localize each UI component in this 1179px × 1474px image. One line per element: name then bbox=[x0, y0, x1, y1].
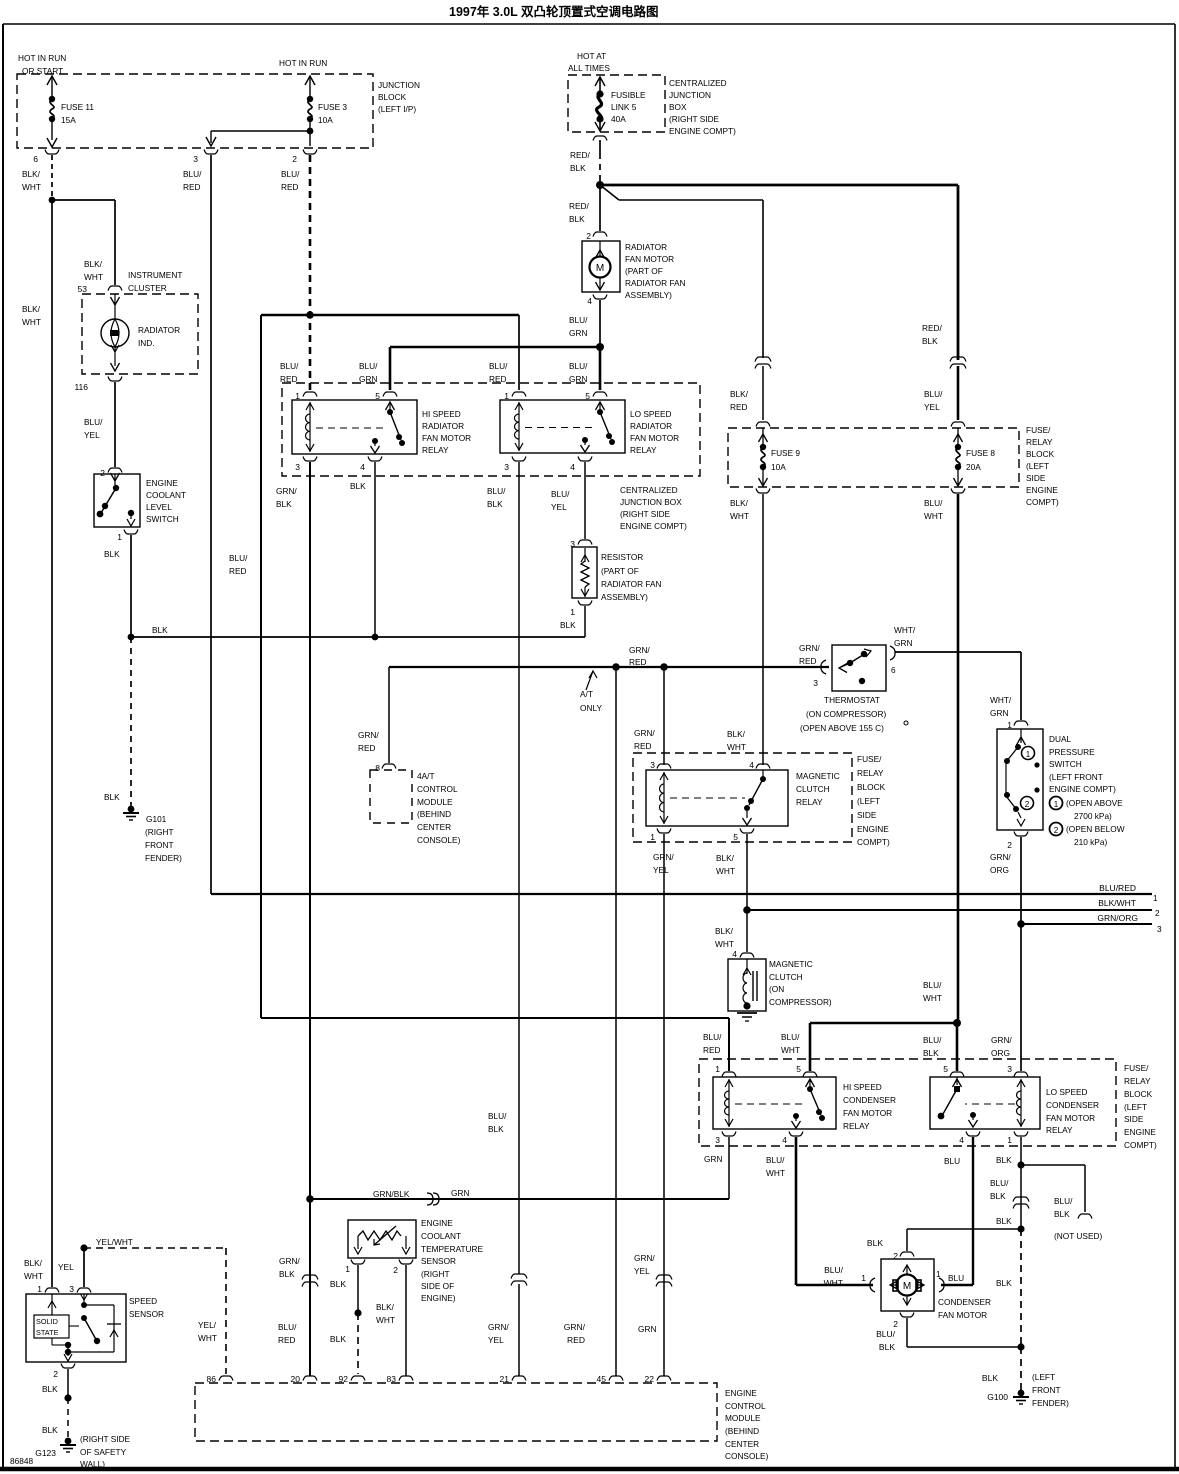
wire BLK/WHT mag relay pin5 to magnetic clutch bbox=[715, 834, 747, 952]
wire BLK temp sensor pin1 to ECM pin 92 bbox=[330, 1265, 362, 1374]
svg-text:JUNCTION BOX: JUNCTION BOX bbox=[620, 497, 682, 507]
wire RED/BLK to radiator fan motor bbox=[599, 185, 601, 231]
pin 3 connector thermostat bbox=[813, 660, 826, 688]
svg-text:HOT AT: HOT AT bbox=[577, 51, 606, 61]
svg-text:RED: RED bbox=[489, 374, 507, 384]
svg-text:FUSE/: FUSE/ bbox=[1124, 1063, 1149, 1073]
pin 2 connector temp sensor bbox=[393, 1260, 413, 1276]
pin 1 connector resistor bbox=[560, 601, 592, 631]
svg-text:ENGINE): ENGINE) bbox=[421, 1293, 456, 1303]
pin 2 connector of junction block bbox=[292, 150, 317, 165]
svg-text:COMPT): COMPT) bbox=[1026, 497, 1059, 507]
inline connector on wire to pin 21 bbox=[511, 1274, 527, 1286]
svg-text:CENTER: CENTER bbox=[417, 822, 451, 832]
svg-text:BLK: BLK bbox=[569, 214, 585, 224]
svg-text:ENGINE: ENGINE bbox=[725, 1388, 757, 1398]
hi speed condenser fan motor relay bbox=[713, 1064, 896, 1145]
svg-text:(ON COMPRESSOR): (ON COMPRESSOR) bbox=[806, 709, 886, 719]
svg-text:2700 kPa): 2700 kPa) bbox=[1074, 811, 1112, 821]
svg-text:BLK/: BLK/ bbox=[24, 1258, 43, 1268]
svg-text:RELAY: RELAY bbox=[796, 797, 823, 807]
svg-text:YEL: YEL bbox=[488, 1335, 504, 1345]
svg-text:RED: RED bbox=[358, 743, 376, 753]
wire BLU/YEL connector to fuse8 bbox=[957, 366, 960, 420]
wire GRN/YEL segment to ECM pin 21 bbox=[488, 1284, 519, 1376]
svg-text:ORG: ORG bbox=[990, 865, 1009, 875]
thermostat box bbox=[800, 645, 908, 733]
svg-text:FAN MOTOR: FAN MOTOR bbox=[843, 1108, 892, 1118]
svg-text:ALL TIMES: ALL TIMES bbox=[568, 63, 610, 73]
svg-text:BLK: BLK bbox=[1054, 1209, 1070, 1219]
fuse/relay block dashed box (condenser relays) bbox=[699, 1059, 1116, 1146]
svg-text:MAGNETIC: MAGNETIC bbox=[769, 959, 813, 969]
svg-text:RELAY: RELAY bbox=[1124, 1076, 1151, 1086]
wire YEL and YEL/WHT dashed to ECM pin 86 bbox=[58, 1237, 226, 1374]
svg-text:SIDE: SIDE bbox=[1124, 1114, 1144, 1124]
wire BLU/RED pin2 dashed down to hi speed radiator relay bbox=[281, 155, 314, 390]
svg-text:RADIATOR: RADIATOR bbox=[625, 242, 667, 252]
svg-text:G123: G123 bbox=[35, 1448, 56, 1458]
svg-text:20: 20 bbox=[291, 1374, 301, 1384]
wire BLK horizontal splice to resistor bbox=[128, 625, 585, 640]
fuse FUSE 8 20A bbox=[951, 422, 995, 493]
svg-text:(OPEN ABOVE: (OPEN ABOVE bbox=[1066, 798, 1123, 808]
svg-text:WHT: WHT bbox=[24, 1271, 43, 1281]
svg-text:FUSE 3: FUSE 3 bbox=[318, 102, 347, 112]
svg-text:GRN/: GRN/ bbox=[799, 643, 820, 653]
svg-text:RADIATOR FAN: RADIATOR FAN bbox=[625, 278, 686, 288]
svg-text:4: 4 bbox=[959, 1135, 964, 1145]
fusible link 5 40A bbox=[595, 77, 646, 131]
svg-text:ENGINE: ENGINE bbox=[421, 1218, 453, 1228]
svg-text:(BEHIND: (BEHIND bbox=[417, 809, 451, 819]
svg-text:RELAY: RELAY bbox=[1046, 1125, 1073, 1135]
svg-text:RED: RED bbox=[730, 402, 748, 412]
svg-text:1: 1 bbox=[1007, 1135, 1012, 1145]
svg-text:HOT IN RUN: HOT IN RUN bbox=[279, 58, 327, 68]
svg-text:(LEFT: (LEFT bbox=[857, 796, 880, 806]
svg-text:JUNCTION: JUNCTION bbox=[378, 80, 420, 90]
label ENGINE CONTROL MODULE (BEHIND CENTER CONSOLE) bbox=[725, 1388, 769, 1461]
wire GRN/RED to 4A/T control module bbox=[358, 667, 389, 763]
svg-text:(PART OF: (PART OF bbox=[625, 266, 663, 276]
svg-text:BLK/: BLK/ bbox=[716, 853, 735, 863]
svg-text:(LEFT: (LEFT bbox=[1124, 1102, 1147, 1112]
svg-text:COMPT): COMPT) bbox=[857, 837, 890, 847]
labels RED/BLK and BLK/RED BLU/YEL bbox=[730, 323, 943, 412]
svg-text:RELAY: RELAY bbox=[843, 1121, 870, 1131]
svg-text:RESISTOR: RESISTOR bbox=[601, 552, 643, 562]
svg-text:2: 2 bbox=[1007, 840, 1012, 850]
lo speed condenser fan motor relay bbox=[930, 1064, 1099, 1145]
radiator fan motor box bbox=[582, 241, 686, 300]
svg-text:COMPRESSOR): COMPRESSOR) bbox=[769, 997, 832, 1007]
wire WHT/GRN thermostat to dual pressure switch bbox=[894, 625, 1021, 720]
svg-text:BLOCK: BLOCK bbox=[1026, 449, 1055, 459]
label FUSE/RELAY BLOCK left side engine compt (fuses) bbox=[1026, 425, 1059, 507]
svg-text:GRN/: GRN/ bbox=[488, 1322, 509, 1332]
svg-text:ENGINE COMPT): ENGINE COMPT) bbox=[1049, 784, 1116, 794]
pin 53 connector instrument cluster bbox=[78, 284, 122, 294]
svg-text:SPEED: SPEED bbox=[129, 1296, 157, 1306]
svg-text:CONDENSER: CONDENSER bbox=[938, 1297, 991, 1307]
svg-text:BLK: BLK bbox=[570, 163, 586, 173]
svg-text:BLK: BLK bbox=[330, 1279, 346, 1289]
svg-text:WHT: WHT bbox=[781, 1045, 800, 1055]
svg-text:WHT: WHT bbox=[715, 939, 734, 949]
wire BLU/RED branch y315 to lo speed relay and x261 down bbox=[261, 315, 729, 1071]
svg-text:RADIATOR: RADIATOR bbox=[630, 421, 672, 431]
svg-text:BLK: BLK bbox=[42, 1384, 58, 1394]
svg-text:BLK/: BLK/ bbox=[22, 169, 41, 179]
svg-text:21: 21 bbox=[500, 1374, 510, 1384]
splice BLK condenser motor top bbox=[996, 1216, 1025, 1233]
wire BLU/RED pin3 down to y894 and right to output 1 bbox=[183, 155, 1152, 894]
wire BLK/WHT temp sensor pin2 to ECM pin 83 bbox=[376, 1265, 406, 1376]
wire BLU/BLK condenser motor pin2 bottom bbox=[876, 1318, 1021, 1352]
svg-text:WHT: WHT bbox=[727, 742, 746, 752]
4A/T control module dashed box bbox=[370, 770, 461, 845]
svg-text:4: 4 bbox=[587, 296, 592, 306]
label FUSE/RELAY BLOCK (mag clutch relay) bbox=[857, 754, 890, 847]
lo speed radiator fan motor relay bbox=[500, 391, 679, 472]
svg-text:PRESSURE: PRESSURE bbox=[1049, 747, 1095, 757]
centralized junction box dashed box (fusible link) bbox=[568, 75, 665, 132]
svg-text:CLUTCH: CLUTCH bbox=[796, 784, 830, 794]
legend open above 2700 kPa bbox=[1050, 797, 1124, 822]
svg-text:4: 4 bbox=[782, 1135, 787, 1145]
svg-text:SOLID: SOLID bbox=[36, 1317, 58, 1326]
svg-text:YEL: YEL bbox=[634, 1266, 650, 1276]
svg-text:RELAY: RELAY bbox=[857, 768, 884, 778]
svg-text:WHT: WHT bbox=[730, 511, 749, 521]
svg-text:5: 5 bbox=[943, 1064, 948, 1074]
svg-text:(ON: (ON bbox=[769, 984, 784, 994]
svg-text:BLU/: BLU/ bbox=[923, 980, 942, 990]
svg-text:BLU/: BLU/ bbox=[551, 489, 570, 499]
magnetic clutch coil on compressor bbox=[728, 959, 832, 1011]
svg-text:RELAY: RELAY bbox=[422, 445, 449, 455]
svg-text:COOLANT: COOLANT bbox=[421, 1231, 461, 1241]
ECM pin 20 connector bbox=[291, 1374, 317, 1384]
svg-text:BLU/: BLU/ bbox=[278, 1322, 297, 1332]
wire GRN/YEL mag relay pin1 to ECM pin 22 bbox=[634, 834, 664, 1376]
svg-text:FENDER): FENDER) bbox=[1032, 1398, 1069, 1408]
svg-text:ASSEMBLY): ASSEMBLY) bbox=[601, 592, 648, 602]
svg-text:CONDENSER: CONDENSER bbox=[1046, 1100, 1099, 1110]
svg-text:3: 3 bbox=[1007, 1064, 1012, 1074]
svg-text:TEMPERATURE: TEMPERATURE bbox=[421, 1244, 484, 1254]
fuse FUSE 3 10A bbox=[305, 76, 347, 146]
svg-text:(LEFT: (LEFT bbox=[1026, 461, 1049, 471]
svg-text:BLU/: BLU/ bbox=[569, 361, 588, 371]
svg-text:BLK: BLK bbox=[279, 1269, 295, 1279]
svg-text:BLU/: BLU/ bbox=[229, 553, 248, 563]
svg-text:6: 6 bbox=[33, 154, 38, 164]
svg-text:CENTER: CENTER bbox=[725, 1439, 759, 1449]
label HOT AT ALL TIMES bbox=[568, 51, 610, 73]
wire BLK condenser motor pin2 top bbox=[867, 1229, 1021, 1251]
svg-text:3: 3 bbox=[715, 1135, 720, 1145]
svg-text:ENGINE: ENGINE bbox=[1124, 1127, 1156, 1137]
svg-text:BLU/: BLU/ bbox=[489, 361, 508, 371]
svg-text:GRN/: GRN/ bbox=[634, 728, 655, 738]
centralized junction box dashed box (relays) bbox=[282, 383, 700, 476]
svg-text:SIDE: SIDE bbox=[1026, 473, 1046, 483]
ground at magnetic clutch bbox=[737, 1013, 757, 1021]
svg-text:BLU/: BLU/ bbox=[824, 1265, 844, 1275]
svg-text:4: 4 bbox=[360, 462, 365, 472]
wire BLK lo condenser pin1 down bbox=[1017, 1137, 1024, 1169]
svg-text:ENGINE COMPT): ENGINE COMPT) bbox=[669, 126, 736, 136]
wire BLK/WHT fuse9 to magnetic clutch relay pin4 bbox=[727, 494, 763, 765]
svg-text:BLK: BLK bbox=[923, 1048, 939, 1058]
svg-text:(LEFT I/P): (LEFT I/P) bbox=[378, 104, 416, 114]
svg-text:6: 6 bbox=[891, 665, 896, 675]
svg-text:BLU: BLU bbox=[948, 1273, 964, 1283]
svg-text:COMPT): COMPT) bbox=[1124, 1140, 1157, 1150]
instrument cluster dashed box bbox=[82, 270, 198, 374]
svg-text:RED: RED bbox=[183, 182, 201, 192]
svg-text:LO SPEED: LO SPEED bbox=[1046, 1087, 1088, 1097]
svg-text:BLK/: BLK/ bbox=[22, 304, 41, 314]
magnetic clutch relay bbox=[646, 760, 840, 842]
svg-text:IND.: IND. bbox=[138, 338, 155, 348]
svg-text:BLU/: BLU/ bbox=[703, 1032, 722, 1042]
svg-text:BLK: BLK bbox=[104, 792, 120, 802]
wire BLK dashed to ground G101 bbox=[104, 637, 131, 806]
svg-text:BLOCK: BLOCK bbox=[857, 782, 886, 792]
svg-text:WHT: WHT bbox=[22, 182, 41, 192]
svg-text:WHT: WHT bbox=[376, 1315, 395, 1325]
svg-text:CONTROL: CONTROL bbox=[417, 784, 458, 794]
inline connector on x310 wire bbox=[302, 1275, 318, 1287]
svg-text:STATE: STATE bbox=[36, 1328, 59, 1337]
label CENTRALIZED JUNCTION BOX (RIGHT SIDE ENGINE COMPT) relays bbox=[620, 485, 687, 531]
condenser fan motor bbox=[881, 1259, 991, 1320]
svg-text:BLU/: BLU/ bbox=[487, 486, 506, 496]
svg-text:BLK/: BLK/ bbox=[727, 729, 746, 739]
svg-text:3: 3 bbox=[295, 462, 300, 472]
svg-text:OF SAFETY: OF SAFETY bbox=[80, 1447, 127, 1457]
svg-text:BLU/: BLU/ bbox=[924, 498, 943, 508]
svg-text:BLK: BLK bbox=[922, 336, 938, 346]
engine control module dashed box bbox=[195, 1383, 717, 1441]
pin 1 connector temp sensor bbox=[345, 1260, 365, 1275]
svg-text:BLU/: BLU/ bbox=[990, 1178, 1009, 1188]
pin 4 connector radiator fan motor bbox=[587, 295, 607, 307]
svg-text:GRN/: GRN/ bbox=[358, 730, 379, 740]
svg-text:WHT: WHT bbox=[22, 317, 41, 327]
svg-text:ENGINE COMPT): ENGINE COMPT) bbox=[620, 521, 687, 531]
svg-text:BLU/: BLU/ bbox=[876, 1329, 896, 1339]
junction block dashed box bbox=[17, 74, 373, 148]
pin 3 connector speed sensor bbox=[69, 1284, 91, 1294]
pin 3 connector resistor bbox=[570, 539, 592, 549]
svg-text:GRN: GRN bbox=[451, 1188, 469, 1198]
pin 6 connector thermostat bbox=[890, 646, 896, 675]
svg-text:ASSEMBLY): ASSEMBLY) bbox=[625, 290, 672, 300]
wire BLU/BLK lo relay pin3 down to ECM pin 21 bbox=[487, 462, 519, 1274]
svg-text:RELAY: RELAY bbox=[630, 445, 657, 455]
svg-text:GRN/: GRN/ bbox=[634, 1253, 655, 1263]
svg-text:1: 1 bbox=[1054, 800, 1059, 809]
wire BLU/YEL cluster to coolant level switch bbox=[84, 382, 115, 467]
ECM pin 92 connector bbox=[339, 1374, 365, 1384]
wire BLU/YEL lo relay pin4 to resistor bbox=[551, 462, 585, 539]
svg-text:5: 5 bbox=[733, 832, 738, 842]
svg-text:FAN MOTOR: FAN MOTOR bbox=[625, 254, 674, 264]
wire BLK dashed ground branch bbox=[982, 1229, 1025, 1390]
speed sensor box bbox=[26, 1294, 164, 1362]
resistor (part of radiator fan assembly) bbox=[572, 547, 662, 602]
radiator indicator lamp bbox=[101, 294, 180, 371]
svg-text:3: 3 bbox=[813, 678, 818, 688]
svg-text:FRONT: FRONT bbox=[1032, 1385, 1061, 1395]
svg-text:WHT: WHT bbox=[923, 993, 942, 1003]
svg-text:3: 3 bbox=[69, 1284, 74, 1294]
svg-text:BLK: BLK bbox=[996, 1216, 1012, 1226]
svg-text:RED/: RED/ bbox=[569, 201, 590, 211]
pin 2 top connector condenser fan motor bbox=[893, 1251, 914, 1261]
wire BLU condenser motor right bbox=[948, 1273, 964, 1283]
svg-text:FENDER): FENDER) bbox=[145, 853, 182, 863]
svg-text:BLK: BLK bbox=[996, 1155, 1012, 1165]
svg-text:BLK: BLK bbox=[560, 620, 576, 630]
svg-text:2: 2 bbox=[53, 1369, 58, 1379]
legend open below 210 kPa bbox=[1050, 823, 1125, 848]
svg-text:WALL): WALL) bbox=[80, 1459, 105, 1469]
svg-text:YEL/WHT: YEL/WHT bbox=[96, 1237, 133, 1247]
svg-text:5: 5 bbox=[796, 1064, 801, 1074]
wire BLU/WHT fuse8 to hi condenser relay pin5 bbox=[781, 1019, 961, 1071]
labels below magnetic clutch relay bbox=[653, 852, 735, 876]
connector below fusible link bbox=[593, 136, 607, 141]
svg-text:COOLANT: COOLANT bbox=[146, 490, 186, 500]
svg-text:1: 1 bbox=[936, 1269, 941, 1279]
svg-text:BLK/: BLK/ bbox=[376, 1302, 395, 1312]
svg-text:BLK: BLK bbox=[350, 481, 366, 491]
svg-text:FUSE/: FUSE/ bbox=[857, 754, 882, 764]
svg-text:G101: G101 bbox=[146, 814, 167, 824]
svg-text:BLK: BLK bbox=[152, 625, 168, 635]
svg-text:BLU/: BLU/ bbox=[280, 361, 299, 371]
svg-text:LINK 5: LINK 5 bbox=[611, 102, 637, 112]
svg-text:2: 2 bbox=[586, 231, 591, 241]
svg-text:WHT: WHT bbox=[84, 272, 103, 282]
inline connector on GRN/BLK line bbox=[427, 1193, 439, 1205]
svg-text:RED: RED bbox=[280, 374, 298, 384]
pin 1 connector dual pressure switch bbox=[1007, 720, 1028, 730]
svg-text:3: 3 bbox=[504, 462, 509, 472]
pin 1 connector coolant level switch bbox=[117, 530, 138, 543]
svg-text:4: 4 bbox=[732, 949, 737, 959]
svg-text:G100: G100 bbox=[987, 1392, 1008, 1402]
fuse/relay block dashed box (fuse 9 fuse 8) bbox=[728, 428, 1019, 487]
svg-text:RED: RED bbox=[703, 1045, 721, 1055]
svg-text:BLU/: BLU/ bbox=[781, 1032, 800, 1042]
svg-text:(LEFT: (LEFT bbox=[1032, 1372, 1055, 1382]
label HOT IN RUN OR START bbox=[18, 53, 66, 76]
pin 2 connector radiator fan motor bbox=[586, 231, 607, 241]
svg-text:1: 1 bbox=[650, 832, 655, 842]
svg-text:(LEFT FRONT: (LEFT FRONT bbox=[1049, 772, 1103, 782]
inline connector on BLU/BLK wire bbox=[1013, 1197, 1029, 1209]
svg-text:2: 2 bbox=[1054, 826, 1059, 835]
svg-text:SWITCH: SWITCH bbox=[146, 514, 179, 524]
fuse FUSE 9 10A bbox=[756, 422, 800, 493]
svg-text:SIDE OF: SIDE OF bbox=[421, 1281, 454, 1291]
svg-text:CONSOLE): CONSOLE) bbox=[417, 835, 461, 845]
svg-text:GRN/: GRN/ bbox=[990, 852, 1011, 862]
svg-text:BLU/: BLU/ bbox=[84, 417, 103, 427]
junction RED/BLK splice and feeds bbox=[569, 181, 958, 360]
title text bbox=[449, 4, 659, 19]
svg-text:RELAY: RELAY bbox=[1026, 437, 1053, 447]
svg-text:WHT: WHT bbox=[924, 511, 943, 521]
svg-text:3: 3 bbox=[193, 154, 198, 164]
wire BLK coolant level switch to splice bbox=[104, 535, 131, 637]
svg-text:BLOCK: BLOCK bbox=[1124, 1089, 1153, 1099]
svg-text:BLK: BLK bbox=[487, 499, 503, 509]
svg-text:BLK/: BLK/ bbox=[730, 389, 749, 399]
svg-text:FUSE/: FUSE/ bbox=[1026, 425, 1051, 435]
svg-text:1: 1 bbox=[861, 1273, 866, 1283]
wire BLU lo condenser pin4 to condenser fan motor bbox=[941, 1137, 973, 1285]
svg-text:GRN: GRN bbox=[359, 374, 377, 384]
svg-text:MODULE: MODULE bbox=[725, 1413, 761, 1423]
svg-text:LEVEL: LEVEL bbox=[146, 502, 172, 512]
svg-text:JUNCTION: JUNCTION bbox=[669, 90, 711, 100]
svg-text:WHT: WHT bbox=[716, 866, 735, 876]
svg-text:1: 1 bbox=[715, 1064, 720, 1074]
svg-text:INSTRUMENT: INSTRUMENT bbox=[128, 270, 182, 280]
svg-text:HI SPEED: HI SPEED bbox=[843, 1082, 882, 1092]
svg-text:GRN/: GRN/ bbox=[276, 486, 297, 496]
svg-text:GRN/: GRN/ bbox=[279, 1256, 300, 1266]
svg-text:(RIGHT: (RIGHT bbox=[145, 827, 174, 837]
label BLU/WHT left of condenser motor bbox=[824, 1265, 844, 1288]
svg-text:BLK: BLK bbox=[996, 1278, 1012, 1288]
ECM pin 45 connector bbox=[597, 1374, 623, 1384]
pin 8 connector 4A/T control module bbox=[375, 763, 396, 773]
svg-text:92: 92 bbox=[339, 1374, 349, 1384]
wire GRN/BLK down to ECM pin 20 bbox=[278, 1199, 310, 1376]
svg-text:86848: 86848 bbox=[10, 1456, 33, 1466]
svg-text:A/T: A/T bbox=[580, 689, 593, 699]
svg-text:GRN/: GRN/ bbox=[991, 1035, 1012, 1045]
svg-text:OR START: OR START bbox=[22, 66, 63, 76]
svg-text:ORG: ORG bbox=[991, 1048, 1010, 1058]
wire BLU/WHT hi condenser pin4 to condenser fan motor bbox=[796, 1137, 873, 1285]
svg-text:FUSE 9: FUSE 9 bbox=[771, 448, 800, 458]
svg-text:2: 2 bbox=[893, 1319, 898, 1329]
svg-text:YEL: YEL bbox=[551, 502, 567, 512]
svg-text:BLK/WHT: BLK/WHT bbox=[1098, 898, 1136, 908]
svg-text:1: 1 bbox=[345, 1264, 350, 1274]
wire GRN/RED down to ECM pin 45 bbox=[564, 667, 656, 1376]
wire BLK hi relay pin4 to splice bbox=[350, 462, 375, 637]
svg-text:HOT IN RUN: HOT IN RUN bbox=[18, 53, 66, 63]
svg-text:(NOT USED): (NOT USED) bbox=[1054, 1231, 1102, 1241]
fuse FUSE 11 15A bbox=[47, 76, 94, 147]
svg-text:GRN/ORG: GRN/ORG bbox=[1097, 913, 1138, 923]
magnetic clutch relay dashed box bbox=[633, 753, 852, 842]
ECM pin 83 connector bbox=[387, 1374, 413, 1384]
svg-text:M: M bbox=[596, 263, 604, 274]
svg-text:YEL: YEL bbox=[84, 430, 100, 440]
pin 2 bottom connector condenser fan motor bbox=[893, 1313, 914, 1330]
